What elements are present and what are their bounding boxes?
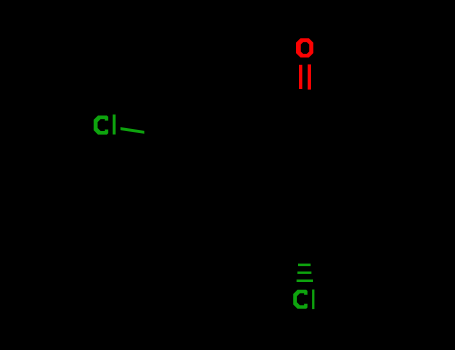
hashed wedge bond to Cl (three dashes)	[298, 264, 311, 267]
atom label Cl (left): l glyph	[113, 115, 116, 135]
atom label Cl (bottom): l glyph	[312, 290, 314, 310]
bond Cl-C (left, green half)	[121, 127, 145, 134]
atom label Cl (bottom): C glyph	[293, 290, 307, 309]
double bond C=O (red upper half)	[299, 65, 302, 89]
atom label O (ketone oxygen)	[296, 38, 313, 57]
atom label Cl (left): C glyph	[94, 116, 109, 135]
